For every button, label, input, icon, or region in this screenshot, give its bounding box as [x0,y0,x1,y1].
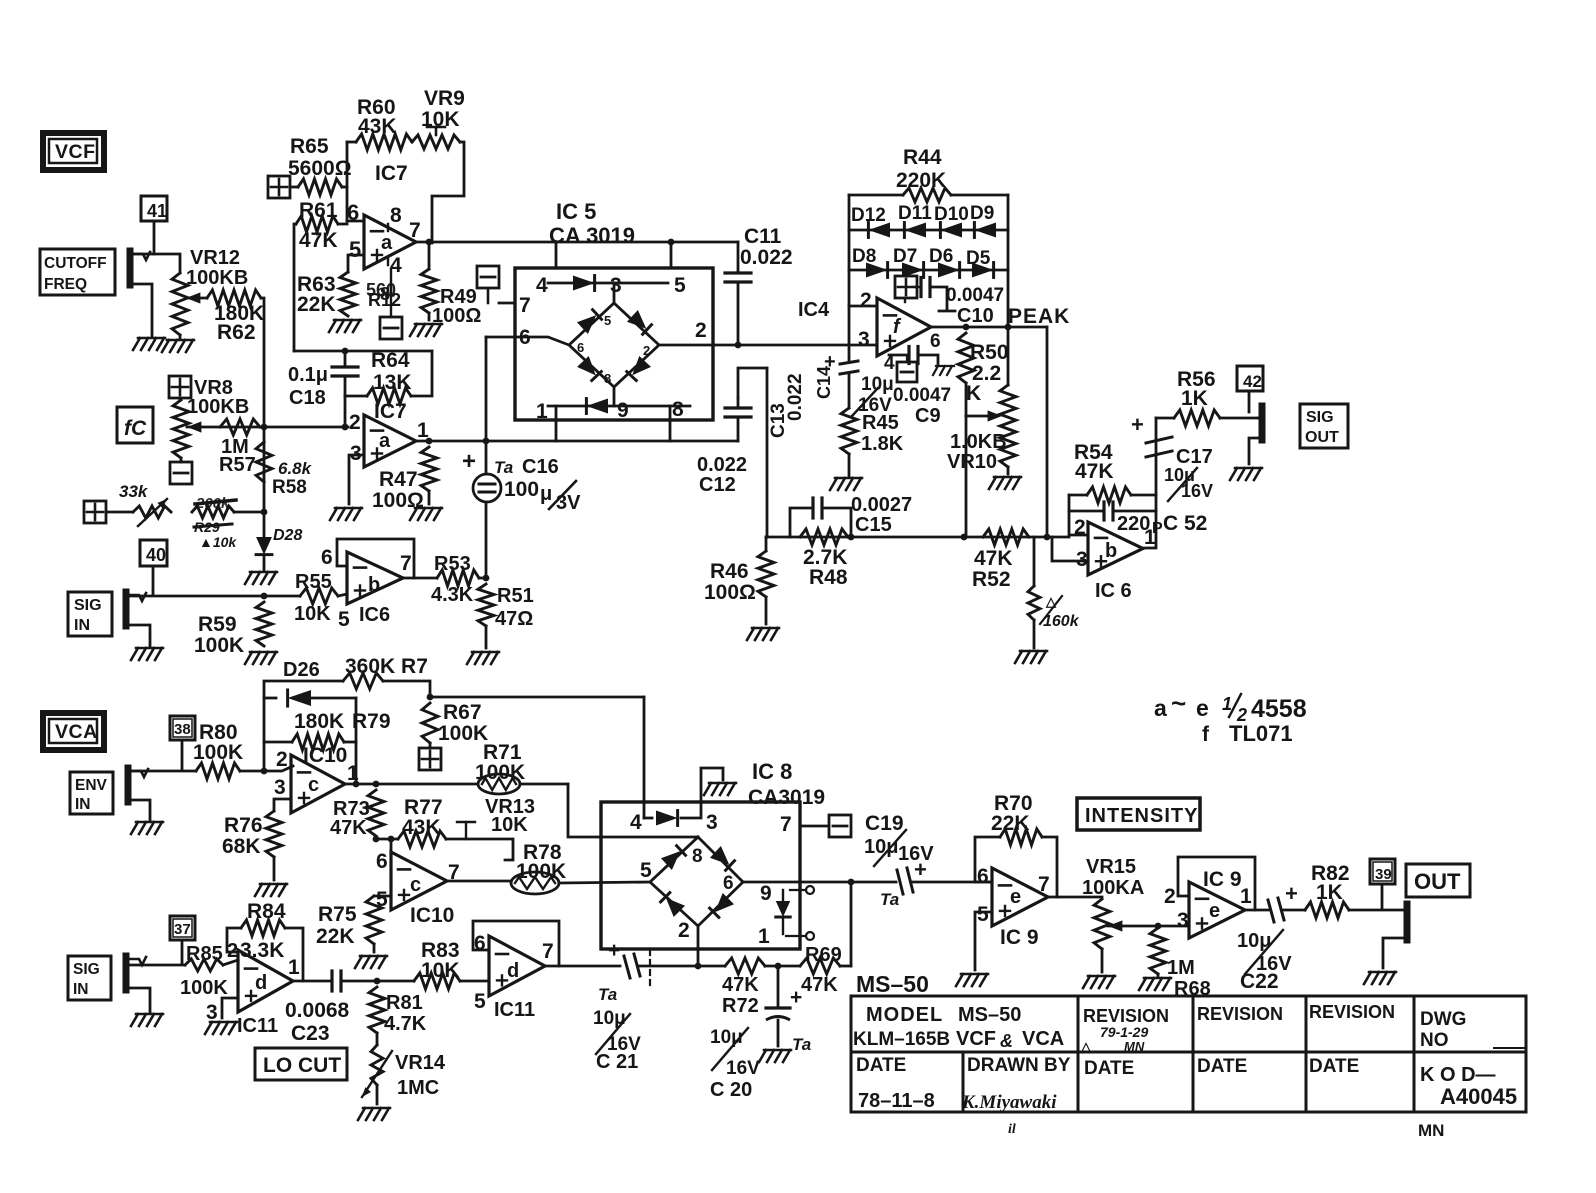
wire [669,406,672,420]
svg-text:100K: 100K [180,977,228,999]
svg-text:22K: 22K [297,293,336,316]
feedback wire with IC9 label [1178,857,1255,910]
svg-text:CA 3019: CA 3019 [549,223,635,248]
resistor R48 2.7K [800,529,848,545]
svg-text:DATE: DATE [856,1055,906,1076]
wire PEAK node down to bus [1046,327,1049,537]
IC5 diode bridge [569,303,659,387]
title block vertical dividers [1077,996,1080,1112]
svg-text:K O D—: K O D— [1420,1064,1496,1086]
ground [1015,651,1022,663]
svg-text:PEAK: PEAK [1008,305,1070,328]
svg-text:C22: C22 [1240,970,1279,993]
diodes D8 D7 D6 D5 [849,269,1008,272]
svg-text:4.3K: 4.3K [431,584,474,606]
svg-text:100KA: 100KA [1082,877,1144,899]
svg-text:e: e [1196,695,1209,721]
svg-text:VCF: VCF [55,141,96,163]
svg-text:8: 8 [692,846,703,867]
potentiometer VR8 100KB [179,398,182,400]
node 39 [1370,859,1395,884]
resistor R73 47K [368,790,384,836]
svg-text:IN: IN [74,617,90,634]
svg-text:360K R7: 360K R7 [345,655,428,678]
svg-text:R81: R81 [386,992,423,1014]
svg-text:1MC: 1MC [397,1077,439,1099]
wire [555,406,558,420]
svg-text:47K: 47K [974,547,1013,570]
wire [294,224,296,351]
capacitor C11 0.022 [737,242,740,271]
capacitor C19 10u Ta [897,870,903,894]
label SIG IN (VCF) [68,592,112,636]
svg-text:Ta: Ta [494,458,513,477]
ground [1230,468,1237,480]
IC5 pin1-9 diode [548,405,690,408]
wire [355,698,358,785]
svg-text:a: a [381,232,393,254]
svg-text:R79: R79 [352,710,391,733]
resistor R83 10K [414,973,460,989]
svg-text:C9: C9 [915,405,941,427]
svg-text:KLM–165B: KLM–165B [853,1029,950,1050]
svg-text:33k: 33k [119,482,149,501]
svg-text:ENV: ENV [75,777,108,794]
svg-text:R76: R76 [224,814,263,837]
svg-text:R75: R75 [318,903,357,926]
svg-text:&: & [1000,1031,1013,1051]
resistor R69 47K [800,958,840,974]
resistor R76 68K [266,811,282,857]
svg-text:180K: 180K [294,710,344,733]
ground [830,478,837,490]
wire feedback IC6b [337,539,414,578]
svg-text:△: △ [1045,594,1057,609]
svg-text:100K: 100K [194,634,244,657]
svg-text:4: 4 [536,274,548,297]
svg-text:47K: 47K [299,229,338,252]
svg-text:16V: 16V [1181,481,1213,501]
svg-text:D9: D9 [970,203,994,224]
svg-text:VR9: VR9 [424,87,465,110]
svg-text:C19: C19 [865,812,904,835]
wire [127,625,150,646]
svg-text:VCA: VCA [55,721,98,743]
wire IC10c2 output [447,880,511,883]
svg-text:D11: D11 [898,203,932,224]
svg-text:5: 5 [977,903,989,926]
svg-text:IC4: IC4 [798,299,830,321]
resistor R64 13K [345,395,367,398]
svg-text:MS–50: MS–50 [856,971,929,997]
resistor R85 100K [185,959,223,971]
wire [403,577,437,580]
wire [698,965,725,968]
ground [133,338,140,350]
op-amp IC9 e #2 [1189,882,1245,938]
op-amp IC6 b (buffer) [347,552,403,604]
svg-text:R72: R72 [722,995,759,1017]
svg-text:3: 3 [1076,548,1088,571]
ground [1083,976,1090,988]
op-amp IC10 c #2 [391,852,447,910]
wire output loop [1143,418,1156,548]
wire pin5 to ground [975,912,992,970]
label VCA [43,713,104,750]
wire [555,242,558,268]
wire to IC8 [430,696,644,699]
potentiometer VR12 100KB [172,273,188,335]
label OUT [1406,864,1470,897]
svg-text:9: 9 [617,399,629,422]
svg-text:c: c [308,774,319,796]
resistor R67 100K [422,703,438,743]
capacitor C20 10u Ta [777,966,780,1006]
svg-text:Ta: Ta [598,985,617,1004]
svg-text:DATE: DATE [1197,1056,1247,1077]
wire [106,511,133,514]
svg-text:C23: C23 [291,1022,330,1045]
svg-text:e: e [1010,886,1021,908]
svg-text:R57: R57 [219,454,256,476]
supply plus for 33k branch [84,501,106,523]
svg-text:INTENSITY: INTENSITY [1085,805,1198,827]
svg-text:5: 5 [474,990,486,1013]
svg-text:R55: R55 [295,571,332,593]
svg-text:e: e [1209,900,1220,922]
jack J42 sig out [1259,406,1266,440]
potentiometer VR9 10K [412,135,460,149]
svg-text:8: 8 [604,371,611,386]
svg-text:5: 5 [674,274,686,297]
capacitor C21 10u Ta [624,956,630,978]
svg-text:4.7K: 4.7K [384,1013,427,1035]
ground small [933,366,938,375]
capacitor C12 0.022 [725,406,751,409]
svg-text:R64: R64 [371,349,410,372]
svg-text:+: + [1285,881,1298,906]
svg-text:3V: 3V [556,492,581,514]
svg-text:D5: D5 [966,248,991,269]
svg-text:REVISION: REVISION [1309,1002,1395,1022]
IC8 diode bridge [650,837,743,926]
resistor R56 1K [1156,417,1174,420]
feedback loop D26 360K 180K [264,681,343,771]
svg-text:R45: R45 [862,412,899,434]
svg-text:REVISION: REVISION [1197,1004,1283,1024]
resistor R65 5600ohm [290,186,298,189]
svg-text:3: 3 [858,328,870,351]
svg-text:C18: C18 [289,387,326,409]
svg-text:100K: 100K [516,860,566,883]
jack J39 output [1404,904,1411,940]
svg-text:R46: R46 [710,560,749,583]
svg-text:0.1μ: 0.1μ [288,364,328,386]
wire signal in to IC6b [127,595,300,598]
svg-text:8: 8 [380,284,390,304]
IC5 package box [515,268,713,420]
wire [347,220,364,223]
svg-text:6: 6 [321,546,333,569]
svg-text:100KB: 100KB [186,267,248,289]
svg-text:8: 8 [390,204,402,227]
svg-text:c: c [410,874,421,896]
svg-text:39: 39 [1375,866,1392,883]
svg-text:100K: 100K [438,722,488,745]
svg-text:7: 7 [409,219,421,242]
wire pin5 stub [348,255,364,272]
svg-text:IC 8: IC 8 [752,759,792,784]
label INTENSITY [1077,798,1200,830]
svg-text:5: 5 [338,608,350,631]
svg-text:1M: 1M [1167,957,1195,979]
svg-text:MODEL: MODEL [866,1004,943,1026]
supply plus for R65 [268,176,290,198]
svg-text:3: 3 [274,776,286,799]
svg-text:6: 6 [930,331,941,352]
ground [410,324,417,336]
pot VR13 10K (ellipse) [478,774,520,794]
ground [245,652,252,664]
wire [670,242,673,268]
wire wiper VR15 [1108,920,1122,931]
ground [330,508,337,520]
resistor R59 100K [256,602,272,646]
svg-text:C 21: C 21 [596,1051,638,1073]
svg-text:160k: 160k [1043,613,1080,630]
resistor R58 6.8k [256,442,272,482]
svg-text:~: ~ [1171,688,1186,718]
IC8 internal diode [782,890,784,904]
capacitor C17 10u16V [1146,437,1172,443]
ground [245,572,252,584]
node 40 [140,540,167,566]
resistor R60 43K [356,134,412,150]
svg-text:41: 41 [147,201,167,221]
wire pin5 stub [374,895,391,898]
svg-text:C10: C10 [957,305,994,327]
svg-text:d: d [255,972,267,994]
svg-text:FREQ: FREQ [44,276,87,293]
wire up to output node [850,882,853,966]
svg-text:1K: 1K [1181,387,1208,410]
svg-text:6: 6 [977,865,989,888]
svg-text:D28: D28 [273,527,302,544]
resistor R63 22K [340,272,356,316]
svg-text:0.0047: 0.0047 [893,385,951,406]
svg-text:10K: 10K [421,108,460,131]
svg-text:R53: R53 [434,553,471,575]
wire IC4 output [931,326,1047,329]
variable resistor VR14 1MC [376,1033,379,1045]
svg-text:1: 1 [288,956,300,979]
wire [613,387,616,406]
resistor R55 10K [300,588,338,604]
IC8 pin4-3 diode [644,817,652,820]
svg-text:C11: C11 [744,225,782,248]
svg-text:OUT: OUT [1305,429,1339,446]
diode D26 [264,697,276,700]
node 42 [1237,366,1263,391]
svg-text:10K: 10K [421,959,460,982]
svg-text:5: 5 [349,237,361,262]
ground [131,822,138,834]
svg-text:VR12: VR12 [190,247,240,269]
wire pin3 stub [1052,537,1088,561]
svg-text:CUTOFF: CUTOFF [44,255,107,272]
svg-text:37: 37 [174,921,191,938]
wire pin3 stub to R76 [274,799,291,811]
pot R78 100K (ellipse) [511,872,559,894]
svg-text:+: + [1131,412,1144,437]
svg-text:D7: D7 [893,246,917,267]
svg-text:100KB: 100KB [187,396,249,418]
jack J40 signal input [123,592,130,626]
supply minus near C9 [897,362,917,382]
svg-text:D26: D26 [283,659,320,681]
svg-text:DWG: DWG [1420,1009,1466,1030]
svg-text:8: 8 [672,398,684,421]
svg-text:4: 4 [884,353,895,374]
wire [294,350,432,353]
svg-text:A40045: A40045 [1440,1084,1517,1109]
resistor R50 2.2K [958,333,974,383]
feedback wire IC11d2 [473,921,559,966]
variable resistor 160K [1033,537,1036,586]
svg-text:79-1-29: 79-1-29 [1100,1024,1148,1040]
svg-text:6: 6 [723,873,734,894]
wire pin4 from top [643,697,646,818]
svg-text:R67: R67 [443,701,482,724]
wire pin3 stub [222,998,238,1018]
svg-text:47K: 47K [1075,460,1114,483]
svg-text:D8: D8 [852,246,876,267]
svg-text:R58: R58 [272,477,307,498]
wire [485,337,488,441]
wire VR13 to IC8 bridge top [568,784,698,837]
svg-text:IC 9: IC 9 [1000,926,1039,949]
node 38 [170,716,195,740]
supply minus IC5 pin7 [477,266,499,288]
svg-text:78–11–8: 78–11–8 [858,1090,935,1112]
wire [234,511,264,514]
svg-text:220: 220 [1117,513,1150,535]
title block horizontal divider [851,1051,1526,1054]
svg-text:SIG: SIG [73,961,100,978]
svg-text:il: il [1008,1122,1016,1137]
svg-text:22K: 22K [316,925,355,948]
op-amp IC11 d #2 [489,936,545,996]
ground [989,477,996,489]
svg-text:4: 4 [630,811,642,834]
ground [410,508,417,520]
ground [467,652,474,664]
wire output bus y441 [416,440,738,443]
capacitor C16 100u 3V tantalum [485,441,488,474]
svg-text:10K: 10K [491,814,528,836]
svg-text:2: 2 [860,289,872,312]
ground [131,1014,138,1026]
svg-text:40: 40 [146,545,166,565]
svg-text:5600Ω: 5600Ω [288,157,352,180]
wire [849,305,877,308]
svg-text:C15: C15 [855,514,892,536]
svg-text:68K: 68K [222,835,261,858]
svg-text:C12: C12 [699,474,736,496]
node 37 [170,916,195,940]
dashed wire [649,950,651,955]
wire [261,298,264,512]
wire IC11d2 output [545,965,620,968]
capacitor C14 10u16V [848,306,851,360]
IC8 pin3 ground loop [701,768,723,802]
svg-text:3.3K: 3.3K [240,939,284,962]
resistor R81 4.7K [369,987,385,1033]
svg-text:▲10k: ▲10k [199,534,237,550]
svg-text:Ta: Ta [880,890,899,909]
svg-text:47K: 47K [801,974,838,996]
svg-text:0.0068: 0.0068 [285,999,350,1022]
resistor R45 1.8K [841,408,857,454]
svg-text:7: 7 [780,813,792,836]
wire IC11d output [293,980,331,983]
svg-text:C14: C14 [814,366,834,399]
wire vca signal in [127,960,185,965]
svg-text:IC10: IC10 [410,904,454,927]
ground [759,1050,766,1062]
wire wiper arrow to VR10 [966,415,996,418]
diode box right edge [1007,195,1010,328]
supply minus IC8 pin7 [829,815,851,837]
svg-text:47K: 47K [330,817,367,839]
wire main bus y537 [766,536,1069,539]
wire pin6 drop [390,839,393,858]
svg-text:C 52: C 52 [1163,512,1207,535]
wire IC10c output [345,783,478,786]
svg-text:2: 2 [276,748,288,771]
diode D28 [263,512,266,541]
feedback R84 3.3K [227,928,241,952]
svg-text:Ta: Ta [792,1035,811,1054]
node fc [117,407,153,443]
svg-text:DATE: DATE [1084,1058,1134,1079]
svg-text:VR14: VR14 [395,1052,446,1074]
svg-text:10μ: 10μ [864,836,898,858]
resistor (scribbled) 10k [192,506,234,518]
IC8 package box [601,802,800,949]
ground [747,628,754,640]
resistor R53 4.3K [437,570,479,586]
svg-text:IC 9: IC 9 [1203,868,1242,891]
svg-text:MS–50: MS–50 [958,1004,1021,1026]
svg-text:+: + [462,448,476,475]
svg-text:R65: R65 [290,135,329,158]
svg-text:3: 3 [706,811,718,834]
ground [255,884,262,896]
wire pin3 stub [349,455,364,504]
op-amp IC9 e #1 [992,868,1048,926]
svg-text:IC11: IC11 [237,1015,278,1037]
title block date/drawn divider [962,1052,965,1112]
wire IC5 pin2 to IC4 [659,344,713,347]
wire [131,254,180,273]
svg-text:3: 3 [350,442,362,465]
svg-text:NO: NO [1420,1030,1449,1051]
svg-text:9: 9 [760,882,772,905]
wire IC8 output [743,881,896,884]
svg-text:VCA: VCA [1022,1028,1064,1050]
IC5 pin4-3 diode [548,282,668,285]
